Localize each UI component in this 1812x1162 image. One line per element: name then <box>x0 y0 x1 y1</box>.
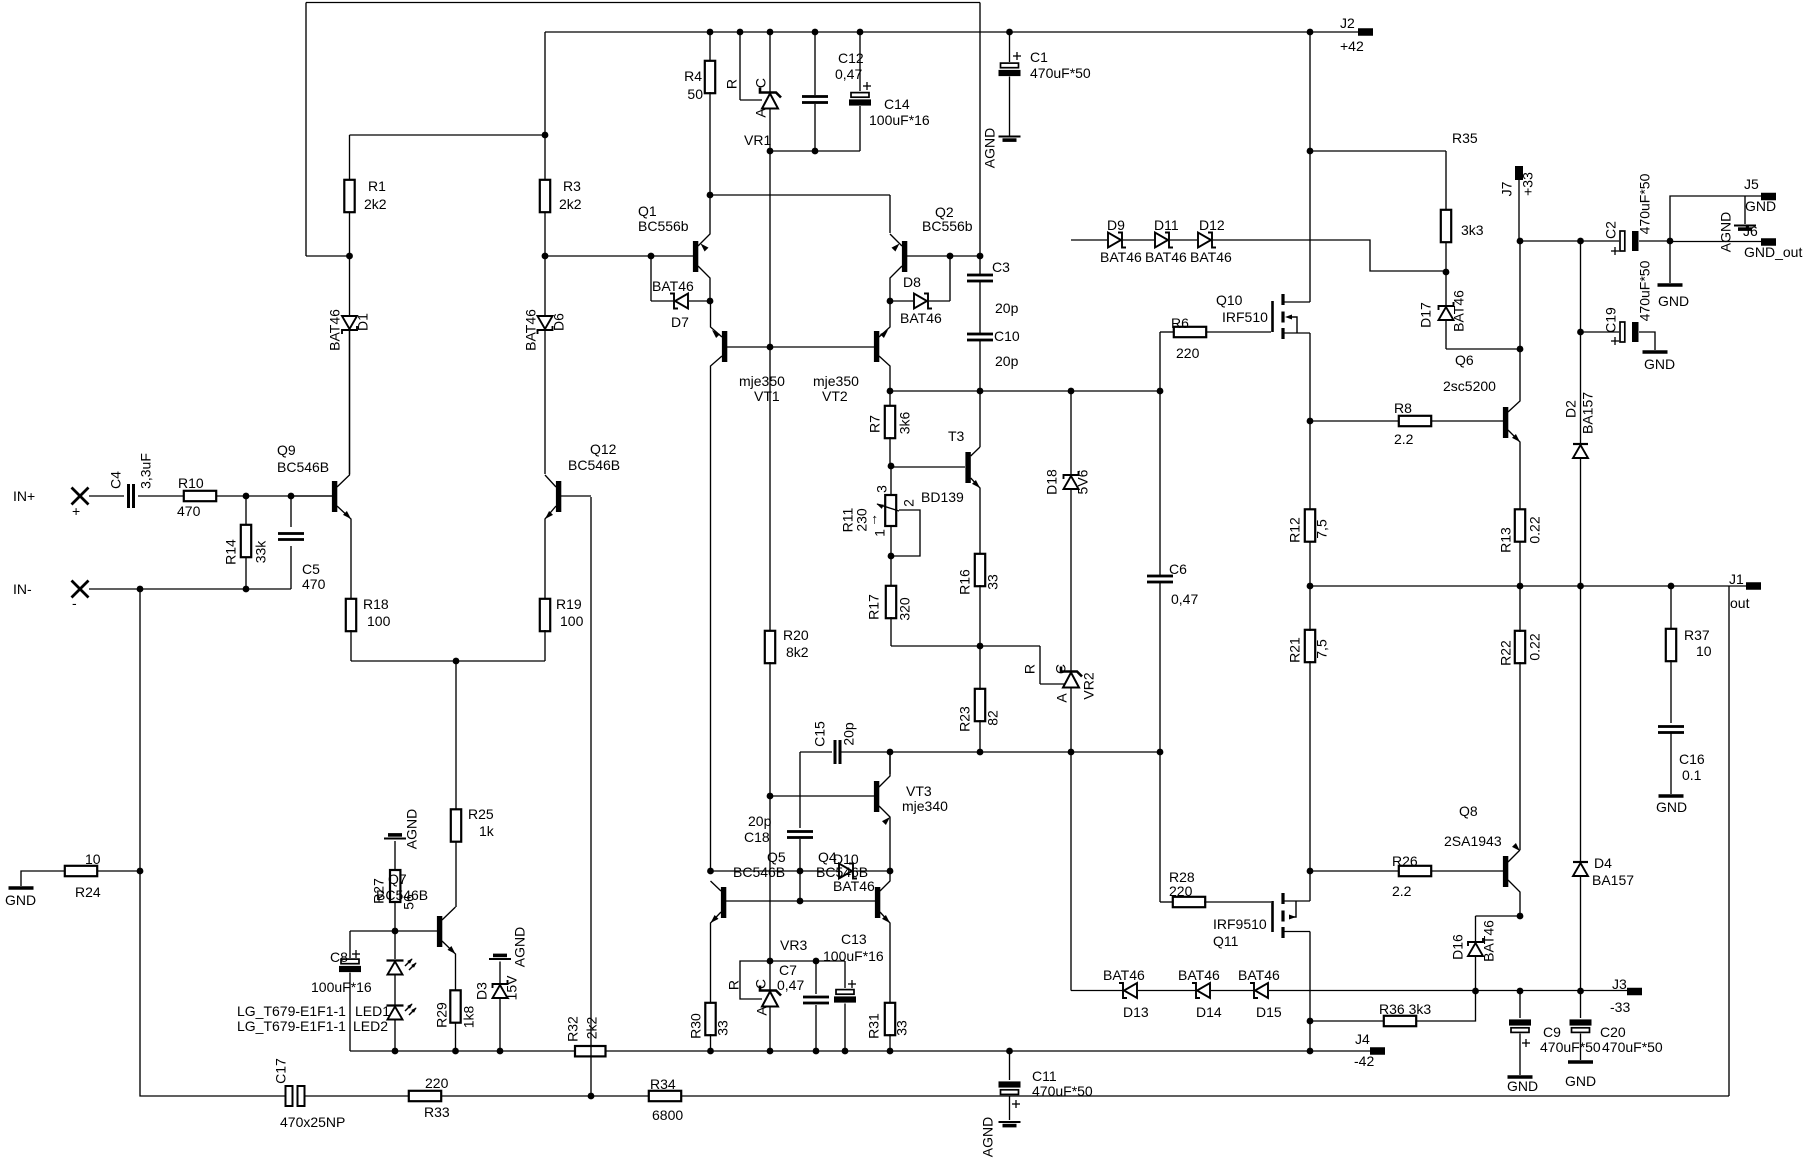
svg-text:R32: R32 <box>565 1016 581 1042</box>
svg-text:LED1: LED1 <box>355 1003 390 1019</box>
svg-text:D1: D1 <box>355 313 371 331</box>
svg-text:2.2: 2.2 <box>1394 431 1414 447</box>
svg-text:BAT46: BAT46 <box>1100 249 1142 265</box>
svg-text:R17: R17 <box>866 594 882 620</box>
svg-text:R36 3k3: R36 3k3 <box>1379 1001 1431 1017</box>
svg-text:VT2: VT2 <box>822 388 848 404</box>
svg-text:GND: GND <box>1565 1073 1596 1089</box>
svg-text:C6: C6 <box>1169 561 1187 577</box>
svg-text:D18: D18 <box>1044 469 1060 495</box>
svg-text:C: C <box>1053 664 1069 674</box>
svg-text:D14: D14 <box>1196 1004 1222 1020</box>
svg-text:5V6: 5V6 <box>1075 469 1091 494</box>
svg-text:D6: D6 <box>551 313 567 331</box>
svg-text:AGND: AGND <box>980 1117 996 1157</box>
svg-text:J7: J7 <box>1499 181 1515 196</box>
svg-text:+42: +42 <box>1340 38 1364 54</box>
svg-text:50: 50 <box>687 86 703 102</box>
svg-text:BAT46: BAT46 <box>1190 249 1232 265</box>
svg-text:+: + <box>72 503 80 519</box>
svg-text:C10: C10 <box>994 328 1020 344</box>
svg-text:LED2: LED2 <box>353 1018 388 1034</box>
svg-text:C11: C11 <box>1032 1068 1057 1084</box>
svg-text:2k2: 2k2 <box>584 1017 600 1040</box>
svg-text:1k: 1k <box>479 823 495 839</box>
svg-text:Q9: Q9 <box>277 442 296 458</box>
svg-text:C18: C18 <box>744 829 770 845</box>
svg-text:Q7: Q7 <box>388 871 407 887</box>
svg-text:J5: J5 <box>1744 176 1759 192</box>
svg-text:BA157: BA157 <box>1580 392 1596 434</box>
svg-text:BC546B: BC546B <box>568 457 620 473</box>
svg-text:BAT46: BAT46 <box>652 278 694 294</box>
svg-text:1: 1 <box>872 529 888 537</box>
svg-text:82: 82 <box>985 710 1001 726</box>
svg-text:320: 320 <box>897 597 913 621</box>
svg-text:20p: 20p <box>841 722 857 746</box>
svg-text:R3: R3 <box>563 178 581 194</box>
svg-text:R37: R37 <box>1684 627 1710 643</box>
svg-text:J3: J3 <box>1612 976 1627 992</box>
svg-text:15V: 15V <box>504 975 520 1001</box>
svg-text:C8: C8 <box>330 949 348 965</box>
svg-text:3k6: 3k6 <box>897 412 913 435</box>
svg-text:AGND: AGND <box>512 927 528 967</box>
svg-text:C19: C19 <box>1603 307 1619 333</box>
svg-text:BAT46: BAT46 <box>523 309 539 351</box>
svg-text:BAT46: BAT46 <box>1238 967 1280 983</box>
svg-text:mje350: mje350 <box>813 373 859 389</box>
svg-text:R14: R14 <box>223 539 239 565</box>
svg-text:R27: R27 <box>371 878 387 904</box>
svg-text:C15: C15 <box>812 721 828 747</box>
svg-text:33k: 33k <box>253 540 269 564</box>
svg-text:R34: R34 <box>650 1076 676 1092</box>
svg-text:R7: R7 <box>867 415 883 433</box>
svg-text:J2: J2 <box>1340 15 1355 31</box>
svg-text:R30: R30 <box>688 1013 704 1039</box>
svg-text:100uF*16: 100uF*16 <box>869 112 930 128</box>
svg-text:R24: R24 <box>75 884 101 900</box>
svg-text:A: A <box>1054 693 1070 703</box>
svg-text:mje350: mje350 <box>739 373 785 389</box>
svg-text:470uF*50: 470uF*50 <box>1637 173 1653 234</box>
svg-text:J6: J6 <box>1743 223 1758 239</box>
svg-text:R23: R23 <box>957 706 973 732</box>
svg-text:7,5: 7,5 <box>1314 639 1330 659</box>
svg-text:GND: GND <box>1656 799 1687 815</box>
svg-text:6800: 6800 <box>652 1107 683 1123</box>
svg-text:Q12: Q12 <box>590 441 617 457</box>
svg-text:-42: -42 <box>1354 1053 1374 1069</box>
svg-text:GND_out: GND_out <box>1744 244 1802 260</box>
svg-text:VR3: VR3 <box>780 937 807 953</box>
svg-text:20p: 20p <box>995 300 1019 316</box>
svg-text:56: 56 <box>401 894 417 910</box>
svg-text:20p: 20p <box>995 353 1019 369</box>
svg-text:R: R <box>724 79 740 89</box>
svg-text:R6: R6 <box>1171 315 1189 331</box>
svg-text:D2: D2 <box>1563 400 1579 418</box>
svg-text:GND: GND <box>1644 356 1675 372</box>
svg-text:C1: C1 <box>1030 49 1048 65</box>
svg-text:-33: -33 <box>1610 999 1630 1015</box>
svg-text:D9: D9 <box>1107 217 1125 233</box>
svg-text:2SA1943: 2SA1943 <box>1444 833 1502 849</box>
svg-text:IN+: IN+ <box>13 488 35 504</box>
svg-text:0,47: 0,47 <box>777 977 804 993</box>
svg-text:D17: D17 <box>1418 302 1434 328</box>
svg-text:BAT46: BAT46 <box>1145 249 1187 265</box>
svg-text:C12: C12 <box>838 50 864 66</box>
svg-text:R: R <box>1022 664 1038 674</box>
svg-text:33: 33 <box>894 1020 910 1036</box>
svg-text:C13: C13 <box>841 931 867 947</box>
svg-text:R: R <box>726 980 742 990</box>
svg-text:R26: R26 <box>1392 853 1418 869</box>
svg-text:A: A <box>753 108 769 118</box>
svg-text:GND: GND <box>1745 198 1776 214</box>
svg-text:VR1: VR1 <box>744 132 771 148</box>
svg-text:D16: D16 <box>1450 934 1466 960</box>
svg-text:0.1: 0.1 <box>1682 767 1702 783</box>
svg-text:220: 220 <box>425 1075 449 1091</box>
svg-text:R25: R25 <box>468 806 494 822</box>
svg-text:R16: R16 <box>957 569 973 595</box>
svg-text:100uF*16: 100uF*16 <box>823 948 884 964</box>
svg-text:R19: R19 <box>556 596 582 612</box>
svg-text:Q8: Q8 <box>1459 803 1478 819</box>
svg-text:3k3: 3k3 <box>1461 222 1484 238</box>
svg-text:GND: GND <box>1507 1078 1538 1094</box>
svg-text:470uF*50: 470uF*50 <box>1030 65 1091 81</box>
svg-text:220: 220 <box>1169 883 1193 899</box>
svg-text:R1: R1 <box>368 178 386 194</box>
svg-text:D12: D12 <box>1199 217 1225 233</box>
svg-text:A: A <box>754 1006 770 1016</box>
svg-text:IN-: IN- <box>13 581 32 597</box>
svg-text:Q1: Q1 <box>638 203 657 219</box>
svg-text:0,47: 0,47 <box>1171 591 1198 607</box>
svg-text:8k2: 8k2 <box>786 644 809 660</box>
svg-text:0,47: 0,47 <box>835 66 862 82</box>
svg-text:10: 10 <box>85 851 101 867</box>
svg-text:GND: GND <box>1658 293 1689 309</box>
svg-text:T3: T3 <box>948 428 965 444</box>
svg-text:3,3uF: 3,3uF <box>138 453 154 489</box>
svg-text:470: 470 <box>302 576 326 592</box>
svg-text:2k2: 2k2 <box>559 196 582 212</box>
svg-text:Q6: Q6 <box>1455 352 1474 368</box>
svg-text:470x25NP: 470x25NP <box>280 1114 345 1130</box>
svg-text:C5: C5 <box>302 561 320 577</box>
svg-text:0.22: 0.22 <box>1527 633 1543 660</box>
svg-text:R18: R18 <box>363 596 389 612</box>
svg-text:R4: R4 <box>684 68 702 84</box>
svg-text:VT1: VT1 <box>754 388 780 404</box>
svg-text:D11: D11 <box>1154 217 1179 233</box>
svg-text:20p: 20p <box>748 813 772 829</box>
svg-text:D4: D4 <box>1594 855 1612 871</box>
svg-text:Q11: Q11 <box>1213 933 1239 949</box>
svg-text:BD139: BD139 <box>921 489 964 505</box>
svg-text:BAT46: BAT46 <box>1451 290 1467 332</box>
svg-text:2k2: 2k2 <box>364 196 387 212</box>
svg-text:LG_T679-E1F1-1: LG_T679-E1F1-1 <box>237 1018 346 1034</box>
svg-text:D8: D8 <box>903 274 921 290</box>
svg-text:BA157: BA157 <box>1592 872 1634 888</box>
svg-text:Q5: Q5 <box>767 849 786 865</box>
svg-text:220: 220 <box>1176 345 1200 361</box>
svg-text:470uF*50: 470uF*50 <box>1637 260 1653 321</box>
svg-text:C3: C3 <box>992 259 1010 275</box>
svg-text:AGND: AGND <box>1718 212 1734 252</box>
svg-text:mje340: mje340 <box>902 798 948 814</box>
svg-text:BAT46: BAT46 <box>900 310 942 326</box>
svg-text:D3: D3 <box>474 982 490 1000</box>
svg-text:J4: J4 <box>1355 1031 1370 1047</box>
svg-text:2: 2 <box>901 499 917 507</box>
svg-text:C9: C9 <box>1543 1024 1561 1040</box>
svg-text:R29: R29 <box>434 1002 450 1028</box>
svg-text:R10: R10 <box>178 475 204 491</box>
svg-text:470uF*50: 470uF*50 <box>1602 1039 1663 1055</box>
svg-text:1k8: 1k8 <box>461 1006 477 1029</box>
svg-text:C17: C17 <box>273 1058 289 1084</box>
svg-text:R20: R20 <box>783 627 809 643</box>
svg-text:R33: R33 <box>424 1104 450 1120</box>
svg-text:AGND: AGND <box>982 128 998 168</box>
svg-text:7,5: 7,5 <box>1314 519 1330 539</box>
svg-text:GND: GND <box>5 892 36 908</box>
svg-text:C14: C14 <box>884 96 910 112</box>
svg-text:IRF510: IRF510 <box>1222 309 1268 325</box>
svg-text:BAT46: BAT46 <box>1481 920 1497 962</box>
svg-text:BC546B: BC546B <box>277 459 329 475</box>
svg-text:LG_T679-E1F1-1: LG_T679-E1F1-1 <box>237 1003 346 1019</box>
svg-text:R8: R8 <box>1394 400 1412 416</box>
svg-text:470: 470 <box>177 503 201 519</box>
svg-text:R12: R12 <box>1287 517 1303 543</box>
svg-text:C2: C2 <box>1603 221 1619 239</box>
svg-text:C: C <box>753 979 769 989</box>
svg-text:out: out <box>1730 595 1750 611</box>
svg-text:BC556b: BC556b <box>638 218 689 234</box>
svg-text:100: 100 <box>367 613 391 629</box>
svg-text:BAT46: BAT46 <box>833 878 875 894</box>
svg-text:C20: C20 <box>1600 1024 1626 1040</box>
svg-text:BAT46: BAT46 <box>1103 967 1145 983</box>
svg-text:R13: R13 <box>1498 527 1514 553</box>
svg-text:R31: R31 <box>866 1013 882 1039</box>
svg-text:33: 33 <box>715 1020 731 1036</box>
svg-text:3: 3 <box>874 485 890 493</box>
svg-text:0.22: 0.22 <box>1527 516 1543 543</box>
svg-text:C4: C4 <box>108 471 124 489</box>
svg-text:470uF*50: 470uF*50 <box>1540 1039 1601 1055</box>
svg-text:+33: +33 <box>1520 172 1536 196</box>
svg-text:BC546B: BC546B <box>733 864 785 880</box>
svg-text:C: C <box>753 78 769 88</box>
svg-text:R21: R21 <box>1287 637 1303 663</box>
svg-text:D7: D7 <box>671 314 689 330</box>
svg-text:100uF*16: 100uF*16 <box>311 979 372 995</box>
svg-text:→: → <box>864 513 880 527</box>
svg-text:100: 100 <box>560 613 584 629</box>
svg-text:Q10: Q10 <box>1216 292 1243 308</box>
svg-text:R22: R22 <box>1498 640 1514 666</box>
svg-text:2sc5200: 2sc5200 <box>1443 378 1496 394</box>
svg-text:-: - <box>72 595 77 611</box>
svg-text:AGND: AGND <box>404 809 420 849</box>
svg-text:470uF*50: 470uF*50 <box>1032 1083 1093 1099</box>
svg-text:VT3: VT3 <box>906 783 932 799</box>
svg-text:C16: C16 <box>1679 751 1705 767</box>
svg-text:VR2: VR2 <box>1081 672 1097 699</box>
svg-text:D10: D10 <box>833 851 859 867</box>
svg-text:J1: J1 <box>1729 571 1744 587</box>
svg-text:C7: C7 <box>779 962 797 978</box>
svg-text:2.2: 2.2 <box>1392 883 1412 899</box>
svg-text:D13: D13 <box>1123 1004 1149 1020</box>
svg-text:10: 10 <box>1696 643 1712 659</box>
svg-text:BAT46: BAT46 <box>327 309 343 351</box>
svg-text:BC556b: BC556b <box>922 218 973 234</box>
svg-text:33: 33 <box>985 574 1001 590</box>
svg-text:D15: D15 <box>1256 1004 1282 1020</box>
svg-text:BAT46: BAT46 <box>1178 967 1220 983</box>
svg-text:R35: R35 <box>1452 130 1478 146</box>
svg-text:IRF9510: IRF9510 <box>1213 916 1267 932</box>
